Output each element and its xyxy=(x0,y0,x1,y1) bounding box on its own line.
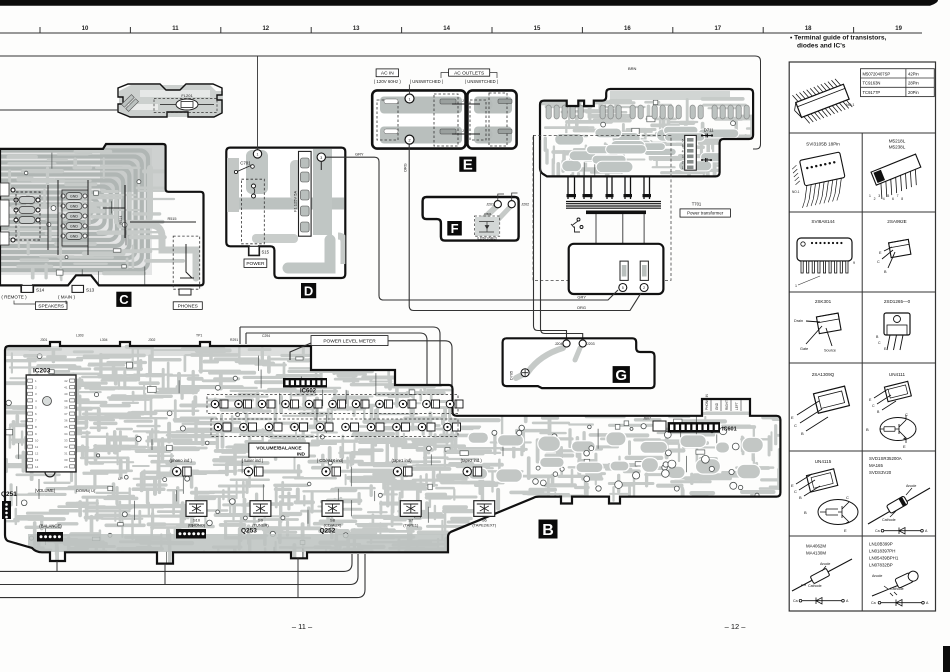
svg-text:B: B xyxy=(866,427,869,432)
svg-text:UN4111: UN4111 xyxy=(889,372,906,377)
svg-text:LEFT: LEFT xyxy=(735,402,739,410)
svg-text:C: C xyxy=(846,495,849,500)
svg-text:GND: GND xyxy=(70,205,78,209)
svg-text:29: 29 xyxy=(64,465,68,469)
svg-text:AC IN: AC IN xyxy=(381,71,394,77)
svg-text:1: 1 xyxy=(795,284,797,288)
svg-text:MA4062M: MA4062M xyxy=(806,544,826,549)
svg-text:36: 36 xyxy=(64,419,68,423)
svg-text:Anode: Anode xyxy=(820,562,830,566)
svg-text:20Pin: 20Pin xyxy=(908,90,919,95)
svg-text:MA165: MA165 xyxy=(869,463,883,468)
svg-text:B: B xyxy=(799,495,802,500)
svg-text:M5218L: M5218L xyxy=(889,139,906,144)
svg-text:GRY: GRY xyxy=(355,151,364,156)
svg-text:12: 12 xyxy=(262,26,269,32)
svg-text:13: 13 xyxy=(35,458,39,462)
svg-text:TC9177P: TC9177P xyxy=(863,90,881,95)
svg-text:FL201: FL201 xyxy=(181,93,193,98)
svg-text:UP: UP xyxy=(118,477,123,481)
svg-text:BRN: BRN xyxy=(628,66,637,71)
svg-text:C: C xyxy=(878,341,881,345)
svg-text:6: 6 xyxy=(892,197,894,201)
svg-text:B: B xyxy=(804,510,807,515)
svg-text:31: 31 xyxy=(64,452,68,456)
svg-text:DOWN( U): DOWN( U) xyxy=(76,488,96,493)
svg-text:TP1: TP1 xyxy=(196,334,202,338)
svg-text:IND: IND xyxy=(297,452,306,458)
svg-text:37: 37 xyxy=(64,412,68,416)
svg-text:R291: R291 xyxy=(230,338,238,342)
svg-text:35: 35 xyxy=(64,425,68,429)
svg-text:PHONO IN: PHONO IN xyxy=(705,394,709,410)
svg-text:12: 12 xyxy=(35,452,39,456)
svg-text:Gate: Gate xyxy=(800,347,808,351)
svg-text:(VOLUME): (VOLUME) xyxy=(35,488,56,493)
svg-text:Source: Source xyxy=(824,349,836,353)
svg-text:5: 5 xyxy=(887,194,889,198)
svg-text:LN07832BP: LN07832BP xyxy=(869,563,893,568)
svg-text:B: B xyxy=(801,431,804,436)
svg-text:S15: S15 xyxy=(262,250,270,255)
svg-text:33: 33 xyxy=(64,438,68,442)
svg-text:C701: C701 xyxy=(240,161,251,166)
svg-text:TC9163N: TC9163N xyxy=(863,81,881,86)
svg-text:Q251: Q251 xyxy=(1,491,17,498)
svg-text:38: 38 xyxy=(64,405,68,409)
svg-text:14: 14 xyxy=(443,26,450,32)
svg-text:32: 32 xyxy=(64,445,68,449)
svg-text:C: C xyxy=(872,404,875,408)
svg-text:R515: R515 xyxy=(167,217,176,221)
svg-text:Cathode: Cathode xyxy=(890,587,904,591)
svg-text:4: 4 xyxy=(682,150,684,154)
svg-text:2SK301: 2SK301 xyxy=(815,299,832,304)
svg-text:SPEAKERS: SPEAKERS xyxy=(38,303,64,309)
svg-text:( tuner ind ): ( tuner ind ) xyxy=(242,458,264,463)
svg-text:J301: J301 xyxy=(40,338,47,342)
svg-text:Anode: Anode xyxy=(906,484,916,488)
svg-text:42Pin: 42Pin xyxy=(908,71,919,76)
svg-text:10: 10 xyxy=(35,438,39,442)
svg-text:34: 34 xyxy=(64,432,68,436)
svg-text:9: 9 xyxy=(853,261,855,265)
svg-text:D705: D705 xyxy=(510,371,514,380)
svg-text:IC601: IC601 xyxy=(722,427,737,433)
svg-text:Ca: Ca xyxy=(875,529,880,533)
svg-text:SVD1SR35200A: SVD1SR35200A xyxy=(869,456,902,461)
svg-text:28Pin: 28Pin xyxy=(908,81,919,86)
svg-text:Cathode: Cathode xyxy=(882,518,896,522)
svg-text:C: C xyxy=(794,423,797,428)
svg-text:LN10B399P: LN10B399P xyxy=(869,542,893,547)
svg-text:– 11 –: – 11 – xyxy=(292,622,313,631)
svg-text:(TAPE1): (TAPE1) xyxy=(403,523,419,528)
svg-text:AC OUTLETS: AC OUTLETS xyxy=(454,70,484,76)
svg-text:1: 1 xyxy=(408,97,410,101)
svg-text:1: 1 xyxy=(257,153,259,157)
svg-text:( UNSWITCHED ): ( UNSWITCHED ) xyxy=(410,79,444,84)
svg-text:13: 13 xyxy=(353,26,360,32)
svg-text:2: 2 xyxy=(643,286,645,290)
svg-text:J204: J204 xyxy=(555,342,563,346)
svg-text:E: E xyxy=(791,415,794,420)
svg-text:MA4130M: MA4130M xyxy=(806,551,826,556)
svg-text:J302: J302 xyxy=(148,338,155,342)
svg-text:F: F xyxy=(451,221,459,236)
svg-text:C: C xyxy=(877,260,880,264)
svg-text:(BALANCE): (BALANCE) xyxy=(39,523,62,528)
svg-text:30: 30 xyxy=(64,458,68,462)
svg-text:19: 19 xyxy=(895,26,902,32)
svg-text:4: 4 xyxy=(883,197,885,201)
svg-text:E: E xyxy=(463,157,473,174)
svg-text:7: 7 xyxy=(897,194,899,198)
svg-text:1: 1 xyxy=(682,166,684,170)
svg-text:42: 42 xyxy=(64,379,68,383)
svg-text:J: J xyxy=(462,99,464,103)
svg-text:2: 2 xyxy=(682,161,684,165)
svg-text:C294: C294 xyxy=(262,334,270,338)
svg-text:R514: R514 xyxy=(119,215,123,224)
svg-text:J201: J201 xyxy=(486,203,494,207)
svg-text:3: 3 xyxy=(878,194,880,198)
svg-text:15: 15 xyxy=(534,26,541,32)
svg-text:M50720407SP: M50720407SP xyxy=(863,71,891,76)
svg-text:J2: J2 xyxy=(190,524,194,528)
svg-text:5: 5 xyxy=(682,144,684,148)
svg-text:UN4115: UN4115 xyxy=(815,459,832,464)
svg-text:J203: J203 xyxy=(587,342,595,346)
svg-text:E: E xyxy=(844,528,847,533)
svg-text:2SA992E: 2SA992E xyxy=(887,219,906,224)
svg-text:RIGHT: RIGHT xyxy=(725,400,729,410)
svg-text:GND: GND xyxy=(70,235,78,239)
svg-text:NO.1: NO.1 xyxy=(792,190,800,194)
svg-text:(phono ind ): (phono ind ) xyxy=(170,458,193,463)
svg-text:GND: GND xyxy=(70,215,78,219)
svg-text:Anode: Anode xyxy=(872,574,882,578)
svg-text:( REMOTE ): ( REMOTE ) xyxy=(1,295,27,300)
svg-text:F1 125V 5A: F1 125V 5A xyxy=(293,191,298,212)
svg-text:14: 14 xyxy=(35,465,39,469)
svg-text:16: 16 xyxy=(624,26,631,32)
svg-text:GND: GND xyxy=(715,402,719,410)
svg-text:GRY: GRY xyxy=(577,295,586,300)
svg-text:1: 1 xyxy=(869,194,871,198)
svg-text:C: C xyxy=(905,412,908,417)
svg-text:D501: D501 xyxy=(484,212,492,216)
svg-text:(TAPE2/EXT): (TAPE2/EXT) xyxy=(472,523,497,528)
svg-text:(tape2 ind.): (tape2 ind.) xyxy=(461,458,483,463)
svg-text:2SD1265—0: 2SD1265—0 xyxy=(884,299,911,304)
svg-text:2: 2 xyxy=(408,138,410,142)
svg-text:L304: L304 xyxy=(100,338,108,342)
svg-text:18: 18 xyxy=(805,26,812,32)
svg-text:( 120V 60Hz ): ( 120V 60Hz ) xyxy=(374,79,402,84)
svg-text:IC602: IC602 xyxy=(300,389,317,395)
svg-text:G: G xyxy=(615,367,627,384)
svg-text:C: C xyxy=(794,489,797,494)
svg-text:L303: L303 xyxy=(76,334,84,338)
svg-text:11: 11 xyxy=(35,445,38,449)
svg-text:8: 8 xyxy=(901,197,903,201)
svg-text:Ca: Ca xyxy=(793,599,798,603)
svg-text:GND: GND xyxy=(70,195,78,199)
svg-text:M5238L: M5238L xyxy=(889,145,906,150)
svg-text:SVDS3V20: SVDS3V20 xyxy=(869,470,892,475)
svg-text:11: 11 xyxy=(172,26,179,32)
svg-text:J607: J607 xyxy=(643,417,651,421)
svg-text:POWER LEVEL METER: POWER LEVEL METER xyxy=(323,338,376,344)
svg-text:E: E xyxy=(791,483,794,488)
svg-text:Cathode: Cathode xyxy=(808,584,822,588)
svg-text:5: 5 xyxy=(622,286,624,290)
svg-text:LN018397PH: LN018397PH xyxy=(869,549,895,554)
svg-text:SVI8A8144: SVI8A8144 xyxy=(811,219,835,224)
svg-text:diodes and IC's: diodes and IC's xyxy=(797,43,846,50)
svg-text:D711: D711 xyxy=(704,127,714,132)
svg-text:Q252: Q252 xyxy=(320,528,336,535)
svg-text:(tape1 ind): (tape1 ind) xyxy=(391,458,412,463)
svg-text:( UNSWITCHED ): ( UNSWITCHED ) xyxy=(465,79,499,84)
svg-text:D: D xyxy=(304,283,313,298)
svg-text:3: 3 xyxy=(320,156,322,160)
svg-text:ORG: ORG xyxy=(577,305,586,310)
svg-text:SVI3105B 18Pin: SVI3105B 18Pin xyxy=(806,142,840,147)
svg-text:LN05439BPH1: LN05439BPH1 xyxy=(869,556,899,561)
svg-text:6: 6 xyxy=(682,139,684,143)
svg-text:Q253: Q253 xyxy=(241,528,257,535)
svg-text:17: 17 xyxy=(714,26,721,32)
svg-text:PHONES: PHONES xyxy=(178,303,198,309)
svg-text:B: B xyxy=(542,522,554,539)
svg-text:( MAIN ): ( MAIN ) xyxy=(58,295,76,300)
svg-text:POWER: POWER xyxy=(246,261,265,267)
svg-text:ORG: ORG xyxy=(404,163,408,172)
svg-text:• Terminal guide of transistor: • Terminal guide of transistors, xyxy=(790,35,887,42)
svg-text:J: J xyxy=(462,129,464,133)
svg-text:NO.1: NO.1 xyxy=(846,103,854,107)
svg-text:– 12 –: – 12 – xyxy=(725,622,747,631)
svg-text:(LD501/5B/2): (LD501/5B/2) xyxy=(477,237,497,241)
svg-text:41: 41 xyxy=(64,386,68,390)
svg-text:10: 10 xyxy=(82,26,89,32)
svg-text:GND: GND xyxy=(70,225,78,229)
svg-text:2: 2 xyxy=(874,197,876,201)
svg-text:VOLUME/BALANCE: VOLUME/BALANCE xyxy=(256,446,302,452)
svg-text:Power transformer: Power transformer xyxy=(687,211,724,216)
svg-text:2SA1309Q: 2SA1309Q xyxy=(812,372,835,377)
svg-text:3: 3 xyxy=(682,155,684,159)
svg-text:T701: T701 xyxy=(692,201,702,206)
svg-text:J202: J202 xyxy=(521,203,529,207)
svg-text:S14: S14 xyxy=(36,288,45,293)
svg-text:39: 39 xyxy=(64,399,68,403)
svg-text:Ca: Ca xyxy=(871,601,876,605)
svg-text:IC203: IC203 xyxy=(33,368,51,375)
svg-text:C: C xyxy=(119,292,129,307)
svg-text:S13: S13 xyxy=(86,288,95,293)
svg-text:E: E xyxy=(903,444,906,449)
svg-text:Drain: Drain xyxy=(794,319,803,323)
svg-text:( CD/AUX ind): ( CD/AUX ind) xyxy=(317,458,344,463)
svg-text:40: 40 xyxy=(64,392,68,396)
